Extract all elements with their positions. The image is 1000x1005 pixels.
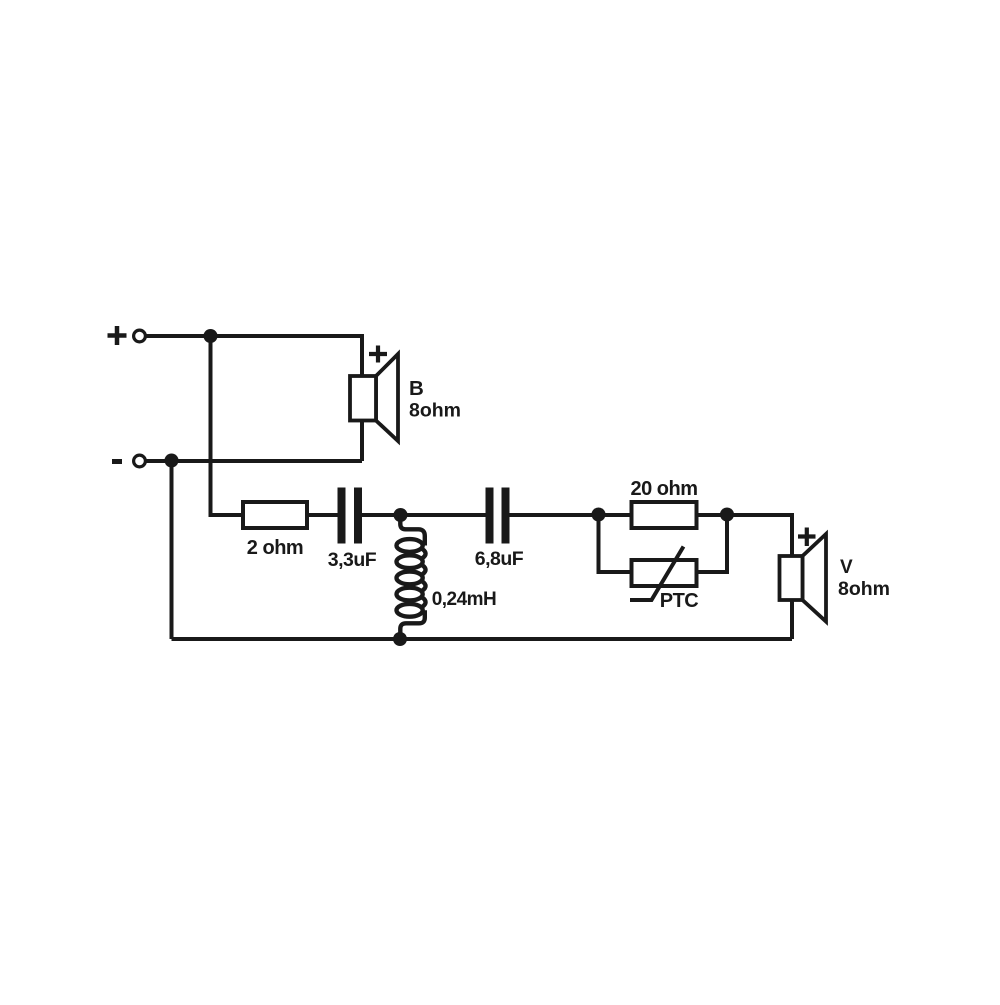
speaker B plus marking bbox=[369, 346, 387, 363]
node B (R2/PTC left junction) bbox=[592, 508, 606, 522]
wire (speaker V bottom to bottom rail) bbox=[790, 600, 794, 639]
resistor R2 20 ohm bbox=[632, 502, 697, 528]
label 3,3uF bbox=[328, 549, 377, 571]
label 20 ohm bbox=[630, 478, 697, 500]
node (negative input junction) bbox=[165, 454, 179, 468]
label 2 ohm bbox=[247, 537, 303, 559]
label B 8ohm bbox=[409, 377, 461, 422]
svg-text:0,24mH: 0,24mH bbox=[432, 589, 497, 610]
svg-text:PTC: PTC bbox=[660, 590, 699, 612]
label 6,8uF bbox=[475, 548, 524, 570]
wire (bottom rail) bbox=[172, 637, 793, 641]
wire (node A to C2) bbox=[401, 513, 486, 517]
label V 8ohm bbox=[838, 557, 890, 600]
svg-text:6,8uF: 6,8uF bbox=[475, 548, 524, 570]
wire (PTC branch right) bbox=[697, 515, 728, 572]
wire (node B to R2) bbox=[599, 513, 632, 517]
speaker B bbox=[350, 354, 398, 441]
wire (R2 to node C) bbox=[697, 513, 728, 517]
wire (C1 to node A) bbox=[362, 513, 401, 517]
speaker V plus marking bbox=[798, 528, 816, 547]
svg-text:2 ohm: 2 ohm bbox=[247, 537, 303, 559]
wire (+ terminal to node) bbox=[147, 334, 211, 338]
node (inductor bottom junction) bbox=[393, 632, 407, 646]
svg-text:V: V bbox=[840, 557, 853, 578]
svg-text:3,3uF: 3,3uF bbox=[328, 549, 377, 571]
svg-text:20 ohm: 20 ohm bbox=[630, 478, 697, 500]
svg-text:B: B bbox=[409, 377, 424, 400]
wire (plus node down to filter input) bbox=[211, 336, 244, 515]
wire (top rail to speaker B) bbox=[211, 336, 363, 376]
wire (minus rail) bbox=[147, 459, 363, 463]
wire (speaker B bottom to minus rail) bbox=[360, 421, 364, 462]
wire (R1 to C1) bbox=[307, 513, 338, 517]
speaker V bbox=[780, 534, 827, 622]
wire (PTC branch left) bbox=[599, 515, 632, 572]
label PTC bbox=[660, 590, 699, 612]
node C (R2/PTC right junction) bbox=[720, 508, 734, 522]
wire (C2 to node B) bbox=[510, 513, 599, 517]
terminal - (negative input) bbox=[112, 455, 145, 467]
node (positive input junction) bbox=[204, 329, 218, 343]
thermistor PTC bbox=[630, 547, 697, 601]
capacitor C1 3,3uF bbox=[338, 488, 363, 544]
svg-text:8ohm: 8ohm bbox=[838, 578, 890, 600]
wire (left vertical, minus to bottom rail) bbox=[170, 461, 174, 640]
node A (C1 / C2 / L1 junction) bbox=[394, 508, 408, 522]
inductor L1 0,24mH bbox=[397, 515, 426, 639]
svg-text:8ohm: 8ohm bbox=[409, 400, 461, 422]
label 0,24mH bbox=[432, 589, 497, 610]
resistor R1 2 ohm bbox=[243, 502, 307, 528]
capacitor C2 6,8uF bbox=[486, 488, 510, 544]
wire (node C to speaker V) bbox=[727, 515, 792, 556]
terminal + (positive input) bbox=[108, 326, 146, 345]
